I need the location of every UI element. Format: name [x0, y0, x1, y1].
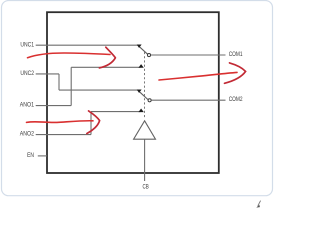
red annotation arrow 2 head [87, 111, 100, 134]
page container rounded border [2, 1, 273, 196]
IC box outline [47, 12, 219, 173]
wire COM2 from pole to pin [151, 99, 225, 101]
bottom-right resize mark stroke [258, 201, 261, 206]
wire COM1 from pole to pin [151, 54, 226, 56]
wire ANO1 vertical step up [70, 67, 72, 105]
red annotation arrow 3 head [225, 63, 246, 83]
wire UNC2 horizontal [36, 73, 59, 75]
switch S1 blade [140, 47, 148, 54]
svg-text:UNC1: UNC1 [20, 42, 34, 48]
switch S2 pole circle [148, 99, 151, 102]
wire ANO1 to switch1 bottom contact [71, 66, 140, 68]
wire ANO1 horizontal [36, 105, 71, 107]
wire ANO2 horizontal [36, 134, 91, 136]
switch S1 bottom fixed contact triangle [138, 64, 143, 68]
switch S2 bottom fixed contact triangle [138, 109, 143, 113]
wire ANO2 to switch2 bottom contact [91, 111, 141, 113]
red annotation arrow 1 head [99, 47, 115, 68]
switch S1 pole circle [147, 54, 150, 57]
switch S2 blade [140, 92, 148, 99]
wire EN stub [38, 155, 47, 157]
wire ANO2 vertical step up [90, 112, 92, 135]
svg-text:COM2: COM2 [229, 97, 243, 103]
switch S1 top fixed contact triangle [137, 45, 142, 48]
bottom-right resize mark [256, 205, 260, 208]
svg-text:COM1: COM1 [229, 52, 243, 58]
svg-text:UNC2: UNC2 [20, 71, 34, 77]
dashed control line [144, 52, 146, 119]
wire CB vertical [144, 139, 146, 181]
svg-text:ANO1: ANO1 [20, 103, 35, 109]
wire UNC2 to switch2 top contact [59, 89, 139, 91]
driver buffer U1 triangle [134, 121, 156, 139]
red annotation arrow 2 shaft [27, 121, 94, 123]
wire UNC1 to switch1 top contact [36, 44, 139, 46]
switch S2 top fixed contact triangle [137, 90, 142, 93]
red annotation arrow 3 shaft [159, 72, 237, 80]
wire UNC2 vertical step down [58, 74, 60, 90]
red annotation arrow 1 shaft [28, 53, 111, 58]
svg-text:EN: EN [27, 153, 34, 159]
svg-text:CB: CB [142, 185, 148, 191]
svg-text:ANO2: ANO2 [20, 132, 35, 138]
